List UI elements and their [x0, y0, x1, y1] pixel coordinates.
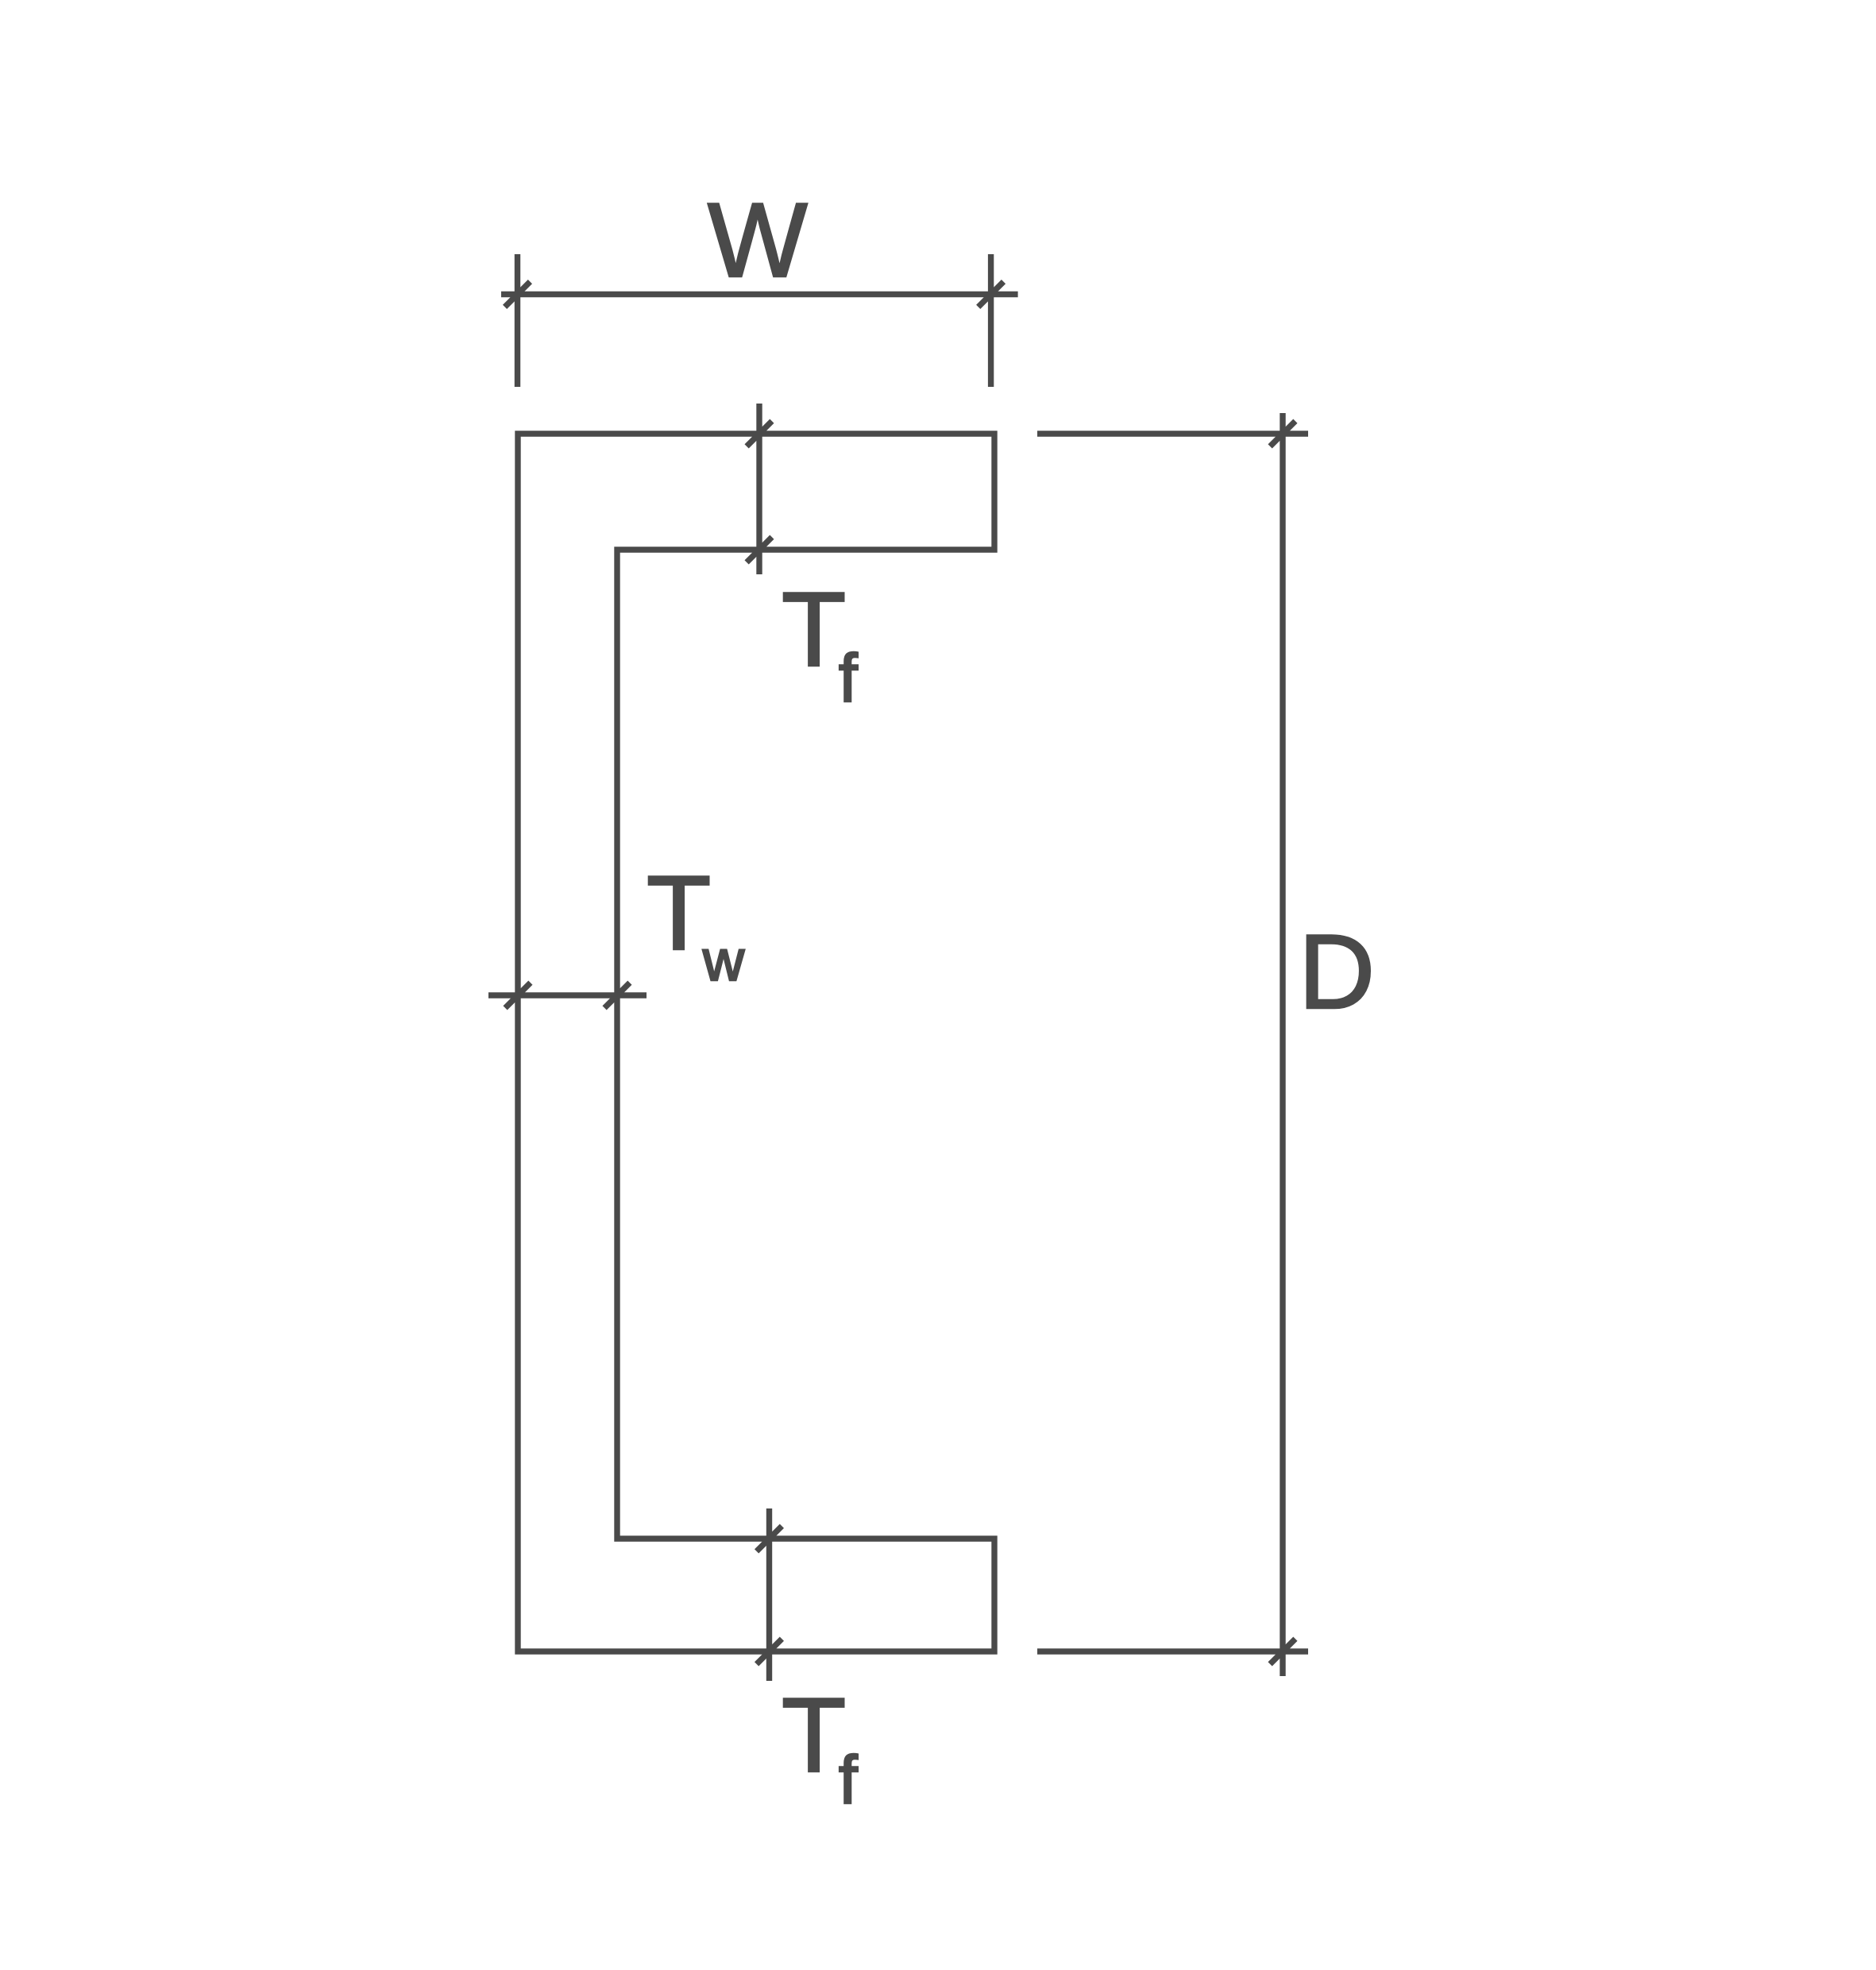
dimension D extension line top: [1037, 431, 1308, 436]
svg-text:T: T: [782, 1677, 846, 1794]
tick Tw left: [505, 983, 531, 1008]
svg-text:f: f: [839, 641, 858, 717]
tick W right: [979, 282, 1004, 307]
dimension D line: [1280, 413, 1285, 1676]
dimension Tf top line: [756, 404, 762, 574]
svg-text:w: w: [702, 929, 745, 993]
dimension W extension line right: [988, 254, 994, 387]
tick Tf top lower: [747, 537, 772, 562]
tick Tf top upper: [747, 421, 772, 446]
tick Tf bottom upper: [757, 1526, 782, 1551]
svg-text:D: D: [1299, 914, 1375, 1031]
dimension D extension line bottom: [1037, 1648, 1308, 1654]
tick Tf bottom lower: [757, 1639, 782, 1664]
svg-text:W: W: [708, 182, 808, 299]
tick D bottom: [1270, 1639, 1295, 1664]
svg-text:T: T: [782, 571, 846, 689]
dimension W extension line left: [515, 254, 520, 387]
svg-text:T: T: [647, 855, 711, 972]
dimension Tw line: [488, 992, 647, 998]
tick W left: [505, 282, 531, 307]
tick Tw right: [604, 983, 630, 1008]
tick D top: [1270, 421, 1295, 446]
svg-text:f: f: [839, 1743, 858, 1818]
dimension Tf bottom line: [766, 1508, 772, 1681]
channel C-section outline: [518, 434, 994, 1651]
dimension W line: [501, 292, 1018, 297]
